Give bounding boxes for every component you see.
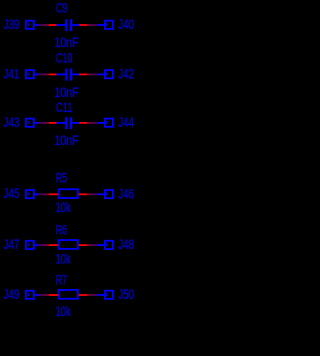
svg-text:J50: J50 [118, 286, 134, 302]
svg-text:10k: 10k [56, 303, 71, 319]
svg-text:J49: J49 [3, 286, 19, 302]
svg-text:J41: J41 [3, 65, 19, 81]
svg-text:R5: R5 [56, 170, 67, 186]
svg-text:J43: J43 [3, 114, 19, 130]
svg-text:J39: J39 [3, 16, 19, 32]
svg-text:C10: C10 [56, 50, 73, 66]
svg-text:J42: J42 [118, 65, 134, 81]
svg-text:10nF: 10nF [55, 34, 79, 50]
svg-text:C11: C11 [56, 99, 73, 115]
svg-text:J46: J46 [118, 185, 134, 201]
svg-text:J40: J40 [118, 16, 134, 32]
svg-text:R7: R7 [56, 272, 67, 288]
svg-text:10nF: 10nF [55, 84, 79, 100]
svg-text:J48: J48 [118, 236, 134, 252]
svg-text:R6: R6 [56, 222, 67, 238]
svg-text:10k: 10k [56, 250, 71, 266]
svg-text:J45: J45 [3, 185, 19, 201]
svg-text:C9: C9 [56, 0, 68, 16]
svg-text:J44: J44 [118, 114, 134, 130]
svg-text:10k: 10k [56, 199, 71, 215]
svg-text:J47: J47 [3, 236, 19, 252]
svg-text:10nF: 10nF [55, 132, 79, 148]
